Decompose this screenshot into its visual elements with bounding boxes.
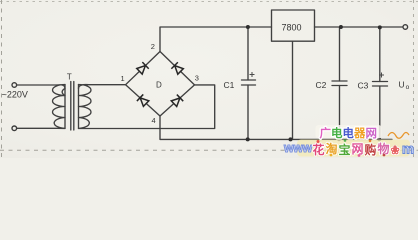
- svg-text:7800: 7800: [282, 23, 302, 33]
- svg-text:网: 网: [352, 142, 364, 156]
- svg-text:宝: 宝: [339, 142, 351, 157]
- svg-text:www: www: [283, 141, 312, 155]
- svg-text:广: 广: [320, 126, 332, 140]
- svg-text:电: 电: [343, 126, 355, 140]
- svg-text:3: 3: [195, 74, 199, 83]
- svg-text:网: 网: [366, 127, 378, 140]
- svg-text:器: 器: [353, 127, 366, 140]
- svg-text:2: 2: [151, 42, 155, 51]
- svg-text:~220V: ~220V: [2, 89, 28, 99]
- svg-text:T: T: [67, 73, 72, 82]
- svg-text:m: m: [402, 142, 414, 157]
- svg-text:C1: C1: [224, 80, 235, 90]
- svg-text:C3: C3: [358, 81, 369, 91]
- svg-text:花: 花: [313, 142, 325, 157]
- svg-text:U: U: [399, 80, 405, 90]
- svg-text:电: 电: [331, 126, 343, 140]
- svg-text:o: o: [406, 84, 410, 91]
- svg-text:D: D: [156, 81, 162, 90]
- svg-text:4: 4: [152, 116, 156, 125]
- svg-text:1: 1: [121, 74, 125, 83]
- svg-text:购: 购: [365, 142, 377, 157]
- svg-text:C2: C2: [316, 80, 327, 90]
